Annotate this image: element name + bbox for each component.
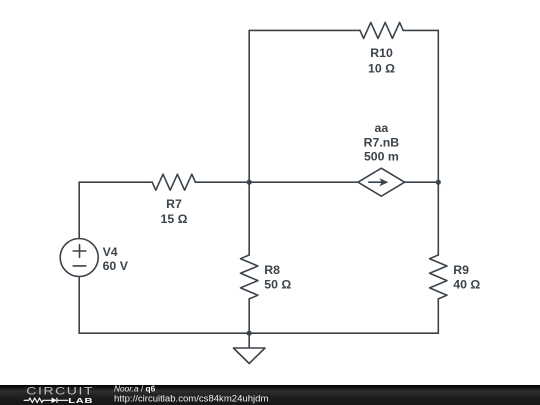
wire top-left horizontal (top wire left segment) bbox=[249, 29, 360, 31]
svg-text:aa: aa bbox=[375, 121, 389, 135]
svg-text:10 Ω: 10 Ω bbox=[368, 62, 395, 76]
svg-text:R8: R8 bbox=[264, 263, 280, 277]
logo resistor-diode line bbox=[24, 398, 69, 403]
resistor R9 bbox=[430, 255, 447, 299]
svg-text:http://circuitlab.com/cs84km24: http://circuitlab.com/cs84km24uhjdm bbox=[114, 393, 268, 404]
wire top-right horizontal bbox=[403, 29, 438, 31]
resistor R10 bbox=[360, 22, 403, 38]
logo diode triangle bbox=[52, 398, 57, 404]
voltage source V4 circle bbox=[60, 239, 98, 277]
svg-text:LAB: LAB bbox=[68, 396, 93, 405]
wire left horizontal (V4 to R7) bbox=[79, 181, 152, 183]
wire R7 to node A bbox=[195, 181, 249, 183]
resistor R7 bbox=[152, 174, 195, 190]
V4 minus sign bbox=[73, 265, 86, 267]
ground bbox=[233, 333, 265, 363]
wire V4 top lead bbox=[78, 182, 80, 238]
wire current source to node B bbox=[405, 181, 439, 183]
resistor R8 bbox=[241, 255, 258, 299]
svg-text:40 Ω: 40 Ω bbox=[453, 277, 480, 291]
svg-text:R9: R9 bbox=[453, 263, 469, 277]
current source arrow bbox=[369, 181, 382, 183]
wire R8 to bottom bbox=[248, 299, 250, 333]
junction node A bbox=[247, 180, 252, 185]
wire V4 bottom lead bbox=[78, 277, 80, 334]
wire node A to R8 bbox=[248, 182, 250, 255]
wire right vertical upper bbox=[437, 30, 439, 182]
svg-text:50 Ω: 50 Ω bbox=[264, 277, 291, 291]
junction bottom node bbox=[247, 331, 252, 336]
wire bottom horizontal bbox=[79, 332, 438, 334]
dependent current source aa (diamond) bbox=[358, 168, 405, 196]
svg-text:15 Ω: 15 Ω bbox=[161, 212, 188, 226]
wire R9 to bottom bbox=[437, 299, 439, 333]
V4 plus sign bbox=[73, 245, 86, 258]
wire middle vertical (top wire down to node A) bbox=[248, 30, 250, 182]
wire node A to current source bbox=[249, 181, 358, 183]
svg-text:R7: R7 bbox=[166, 197, 182, 211]
wire node B to R9 bbox=[437, 182, 439, 255]
svg-text:60 V: 60 V bbox=[103, 259, 129, 273]
svg-text:R7.nB: R7.nB bbox=[364, 135, 400, 149]
svg-text:V4: V4 bbox=[103, 245, 118, 259]
current source arrowhead bbox=[380, 178, 389, 186]
junction node B bbox=[436, 180, 441, 185]
svg-text:500 m: 500 m bbox=[364, 150, 399, 164]
svg-text:Noor.a / q6: Noor.a / q6 bbox=[114, 385, 156, 394]
svg-text:R10: R10 bbox=[370, 46, 393, 60]
